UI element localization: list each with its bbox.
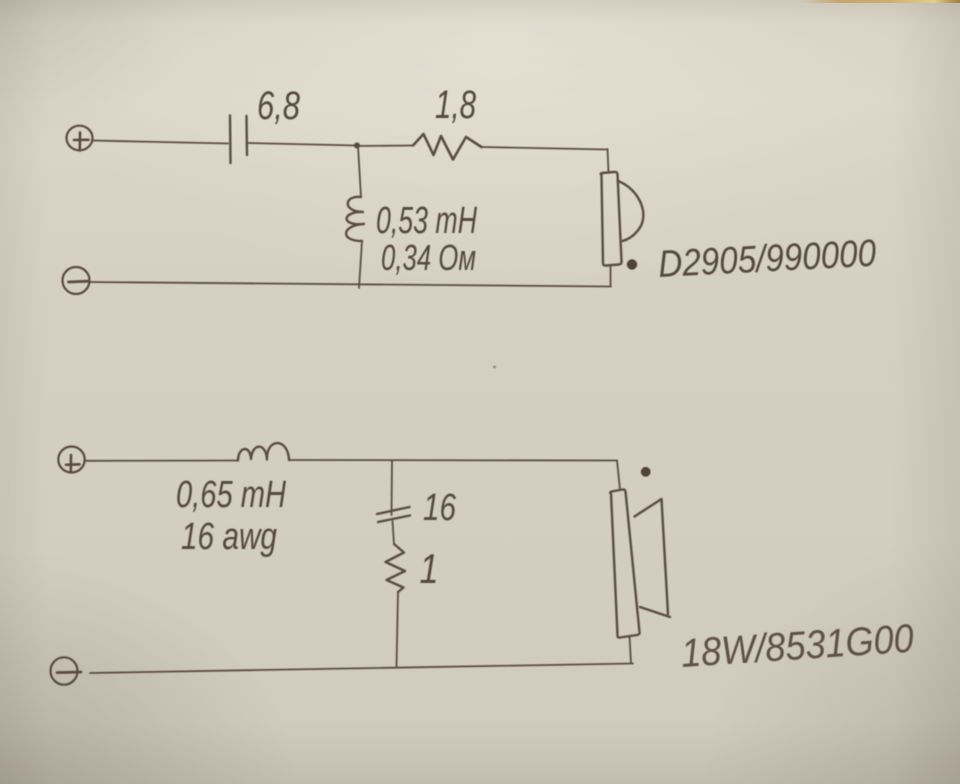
wire (shunt branch down) (391, 461, 394, 515)
wire (corner down to tweeter) (608, 149, 609, 173)
svg-text:1,8: 1,8 (435, 83, 477, 127)
wire (93, 141, 229, 144)
woofer cone (635, 499, 671, 617)
paper edge yellow strip (800, 0, 960, 3)
wire (482, 147, 608, 150)
capacitor C2 16uF plates (377, 507, 410, 522)
wire (tweeter bottom lead) (610, 267, 612, 287)
svg-text:6,8: 6,8 (257, 84, 301, 128)
tweeter dome arc (618, 181, 643, 241)
wire (corner down to woofer) (617, 461, 620, 490)
tweeter polarity dot (627, 259, 637, 269)
wire (393, 521, 395, 544)
terminal + (top circuit) (67, 126, 93, 151)
capacitor C1 6.8uF (230, 116, 247, 164)
terminal - (top circuit) (63, 267, 90, 294)
wire (289, 459, 617, 462)
svg-text:D2905/990000: D2905/990000 (657, 233, 877, 286)
svg-text:0,65 mH: 0,65 mH (176, 474, 286, 516)
terminal + (bottom circuit) (58, 447, 84, 473)
inductor L2 0.65mH series coil (238, 443, 289, 460)
wire (85, 460, 238, 462)
inductor L1 bottom lead (359, 241, 362, 288)
paper speck (493, 366, 496, 369)
wire (357, 145, 413, 148)
resistor R1 1.8 ohm (413, 134, 482, 160)
inductor L1 0.53mH shunt coil: top lead (358, 146, 361, 197)
tweeter U1 body (601, 172, 622, 266)
svg-text:1: 1 (420, 545, 439, 592)
node junction (354, 143, 360, 149)
resistor R2 1 ohm (vertical zigzag) (386, 544, 406, 592)
wire (woofer bottom lead) (630, 636, 632, 663)
inductor L1 coil bumps (346, 197, 364, 241)
terminal - (bottom circuit) (51, 657, 82, 684)
svg-text:0,34 Ом: 0,34 Ом (381, 237, 476, 278)
svg-text:0,53 mH: 0,53 mH (376, 200, 477, 242)
svg-text:18W/8531G00: 18W/8531G00 (680, 617, 915, 676)
wire (bottom rail, bottom circuit) (90, 664, 633, 674)
woofer polarity dot (641, 467, 651, 477)
svg-text:16: 16 (423, 487, 457, 529)
wire (shunt branch to bottom rail) (397, 592, 399, 667)
wire (bottom rail, top circuit) (89, 282, 611, 287)
svg-text:16 awg: 16 awg (181, 516, 277, 558)
woofer W1 body (610, 489, 639, 637)
wire (249, 143, 358, 146)
